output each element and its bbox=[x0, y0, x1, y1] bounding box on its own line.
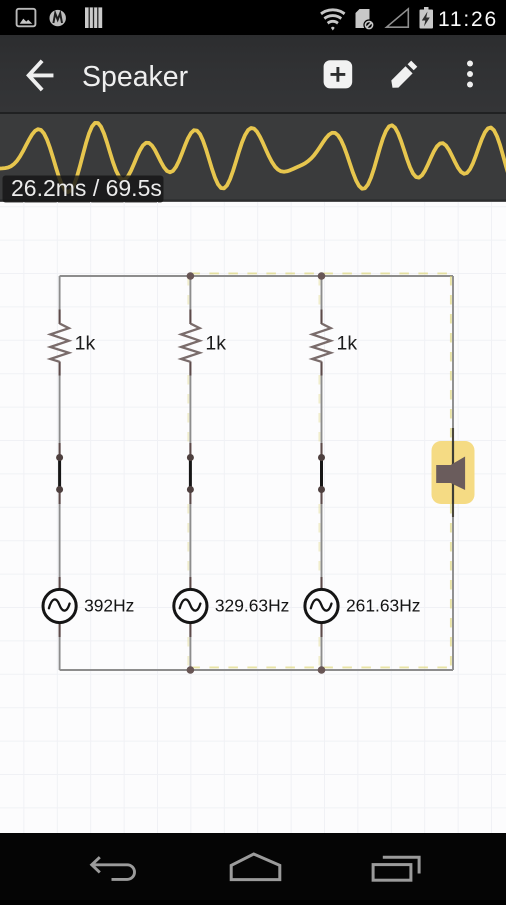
svg-text:261.63Hz: 261.63Hz bbox=[346, 596, 420, 616]
svg-text:26.2ms / 69.5s: 26.2ms / 69.5s bbox=[11, 175, 162, 201]
svg-text:392Hz: 392Hz bbox=[84, 596, 134, 616]
svg-text:1k: 1k bbox=[75, 333, 96, 355]
svg-text:329.63Hz: 329.63Hz bbox=[215, 596, 289, 616]
svg-text:Speaker: Speaker bbox=[82, 61, 189, 93]
svg-text:1k: 1k bbox=[337, 333, 358, 355]
svg-text:1k: 1k bbox=[205, 333, 226, 355]
svg-text:11:26: 11:26 bbox=[438, 8, 498, 31]
